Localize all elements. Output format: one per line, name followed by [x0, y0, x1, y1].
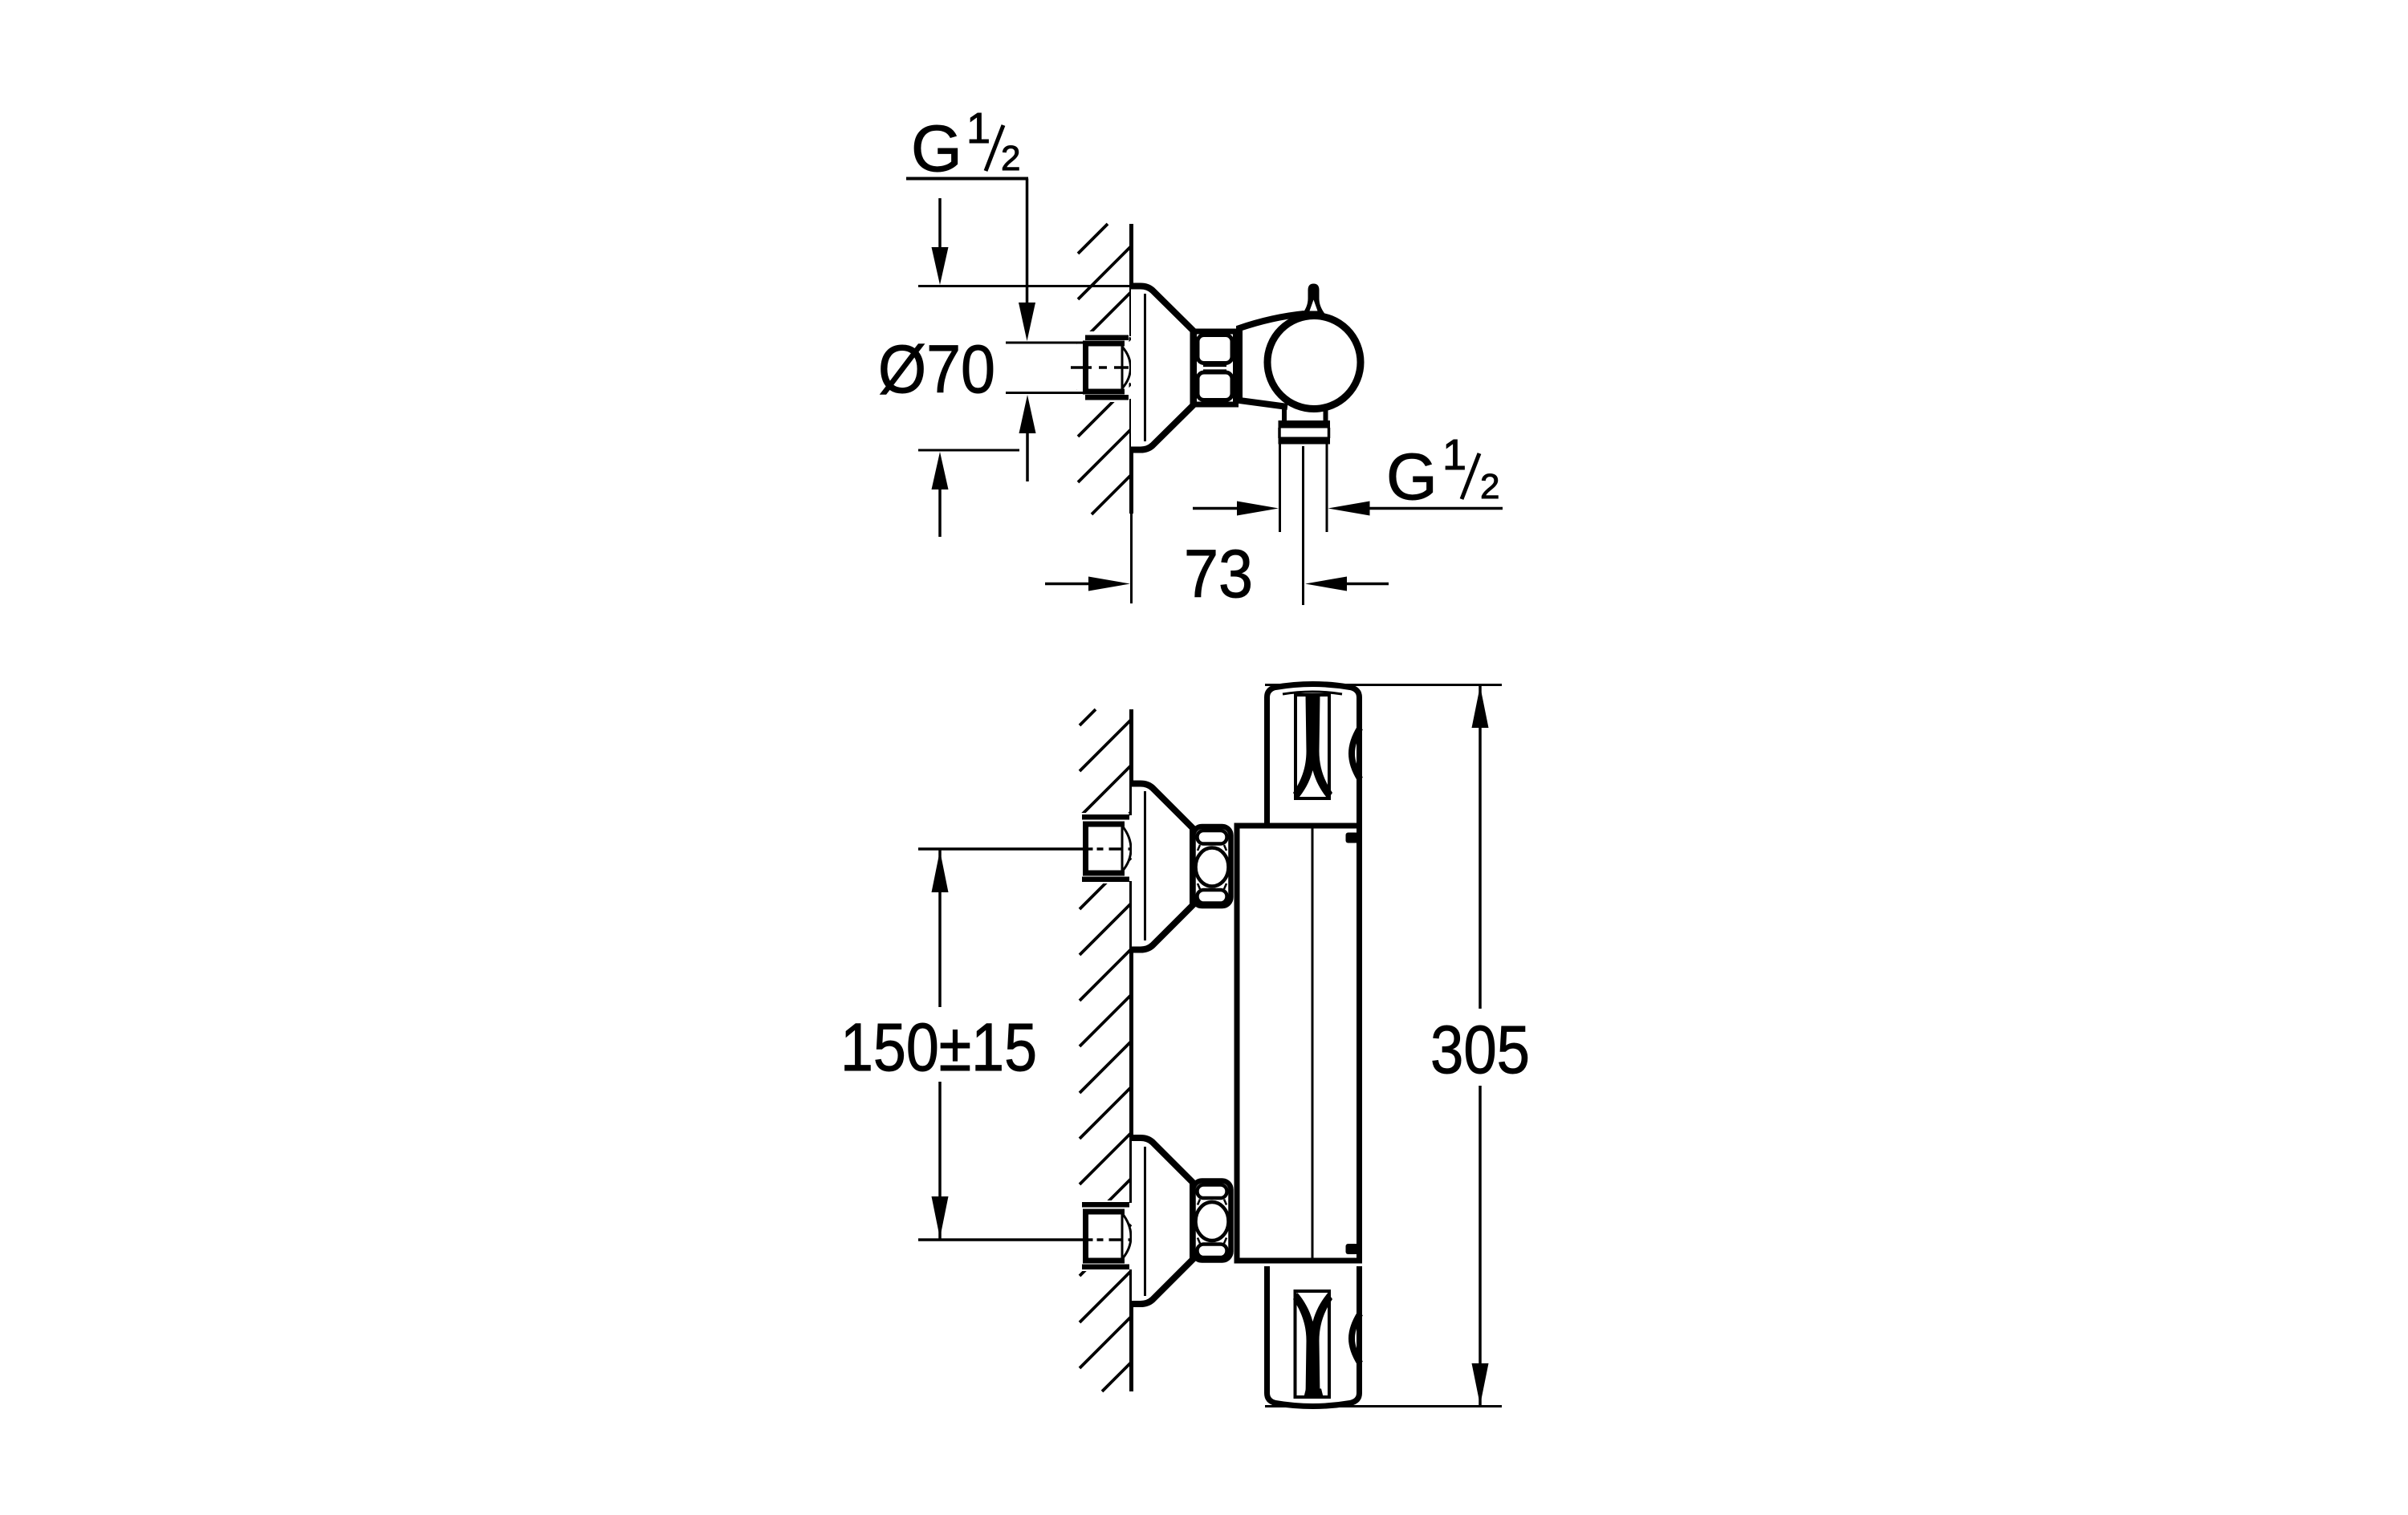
knob pointer pin	[1303, 284, 1325, 315]
svg-text:2: 2	[1001, 139, 1020, 178]
wall extension line for 73 dim	[1130, 514, 1133, 603]
Ø70 dimension arrow (up, at bottom)	[932, 452, 949, 489]
pipe centre line	[1302, 446, 1304, 605]
top cap grip window	[1296, 695, 1329, 798]
svg-text:1: 1	[966, 104, 990, 152]
lower escutcheon cone (front view)	[1132, 1138, 1193, 1304]
escutcheon base edge line	[1144, 294, 1146, 441]
305 vertical dimension with arrows	[1472, 686, 1489, 728]
body clip mark (bottom)	[1346, 1244, 1359, 1254]
top cap inner arc	[1283, 692, 1342, 694]
bottom cap grip window	[1296, 1291, 1330, 1397]
hatch clearing around upper inlet	[1078, 813, 1129, 883]
upper escutcheon cone (front view)	[1132, 784, 1193, 950]
wall line (front view)	[1129, 709, 1133, 1391]
150±15 dimension line (lower)	[918, 1238, 1083, 1241]
centre line through upper square (dash-dot)	[1087, 847, 1132, 851]
305 dimension extension line (bottom)	[1265, 1405, 1502, 1407]
lower hex nut (front view)	[1194, 1181, 1231, 1261]
body clip mark (top)	[1346, 833, 1359, 843]
escutcheon cone (side view)	[1131, 286, 1194, 450]
lower fitting rounded nose	[1122, 1213, 1131, 1259]
G 1/2 label underline	[906, 177, 1028, 181]
dimension extension line, escutcheon bottom (Ø70)	[918, 449, 1019, 452]
bottom chrome cap	[1267, 1266, 1360, 1407]
G 1/2 pipe dimension (arrows)	[1237, 502, 1279, 516]
upper hex nut (front view)	[1194, 827, 1231, 906]
hatch clearing around lower inlet	[1078, 1200, 1129, 1271]
hatch clearing around inlet fitting (top view)	[1077, 331, 1129, 402]
hex nut (side view)	[1194, 331, 1236, 404]
main valve body (front view)	[1237, 826, 1360, 1261]
upper wall flange plates	[1082, 814, 1129, 820]
thermostat knob (circle, side view)	[1267, 316, 1361, 409]
svg-text:305: 305	[1430, 1012, 1530, 1087]
svg-text:73: 73	[1184, 536, 1253, 611]
upper fitting rounded nose	[1122, 826, 1131, 871]
wall hatching (top view)	[1078, 224, 1131, 514]
svg-text:2: 2	[1480, 467, 1499, 506]
top cap grip blade	[1293, 695, 1332, 799]
arrow to thread square bottom (up)	[1019, 395, 1036, 433]
thread square extension lines	[1006, 342, 1084, 344]
fitting centre line (dash-dot, top view)	[1071, 366, 1129, 369]
lower escutcheon base edge line	[1144, 1147, 1146, 1296]
bottom cap side hole arc	[1352, 1314, 1361, 1363]
body panel line	[1312, 826, 1314, 1261]
wall flange plates (top view)	[1085, 335, 1129, 341]
Ø70 dimension arrow (down, at top)	[938, 198, 942, 250]
union square fitting (top view)	[1083, 341, 1126, 395]
wall hatching (front view)	[1080, 709, 1131, 1391]
upper escutcheon base edge line	[1144, 791, 1146, 940]
73 dimension	[1045, 583, 1088, 586]
top chrome cap	[1267, 684, 1360, 827]
outlet coupling ring	[1279, 420, 1331, 429]
svg-text:Ø70: Ø70	[878, 331, 995, 407]
upper union square fitting	[1083, 822, 1126, 876]
lower wall flange plates	[1082, 1202, 1129, 1208]
fitting rounded nose (top view)	[1122, 347, 1131, 388]
150±15 vertical dimension with arrows	[932, 851, 949, 892]
bottom cap grip blade	[1293, 1293, 1332, 1397]
dimension extension line, escutcheon top (Ø70)	[918, 285, 1131, 287]
shower hose pipe (side view)	[1279, 445, 1281, 533]
svg-text:G: G	[1386, 441, 1438, 514]
valve body (side view)	[1239, 314, 1304, 407]
305 dimension extension line (top)	[1265, 684, 1502, 686]
wall line (top view)	[1129, 224, 1133, 514]
top cap side hole arc	[1352, 728, 1361, 779]
svg-text:G: G	[911, 112, 962, 185]
leader line from G 1/2 to thread square	[1026, 179, 1029, 304]
centre line through lower square (dash-dot)	[1087, 1238, 1132, 1241]
outlet neck (side view)	[1282, 407, 1287, 421]
bottom cap inner arc	[1283, 1404, 1344, 1407]
lower union square fitting	[1083, 1209, 1126, 1264]
svg-text:150±15: 150±15	[840, 1009, 1037, 1085]
150±15 dimension line (upper)	[918, 847, 1083, 851]
svg-text:1: 1	[1442, 431, 1466, 479]
